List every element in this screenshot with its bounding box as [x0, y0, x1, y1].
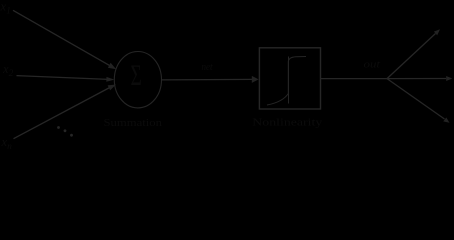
arrowhead into box: [252, 76, 259, 83]
wire input n: [14, 87, 111, 139]
dots between inputs: [57, 126, 73, 137]
arrowhead input 1: [108, 63, 116, 70]
svg-text:out: out: [364, 60, 381, 71]
sigmoid vertical axis: [288, 57, 290, 104]
sigma symbol: [131, 60, 142, 92]
nonlinearity box U1: [259, 48, 320, 109]
wire fan to bottom output: [387, 79, 445, 119]
sigmoid curve inside box: [267, 57, 306, 106]
arrowhead top output: [434, 29, 440, 35]
arrowhead middle output: [446, 76, 452, 81]
svg-text:Nonlinearity: Nonlinearity: [252, 117, 323, 128]
wire input 1: [13, 10, 111, 66]
svg-text:Σ: Σ: [131, 60, 142, 92]
wire fan to top output: [387, 34, 436, 79]
wire input 2: [17, 76, 109, 80]
wire summation to box: [162, 78, 253, 81]
arrowhead input 2: [106, 77, 114, 82]
wire fan to middle output: [387, 78, 446, 80]
svg-text:net: net: [202, 62, 213, 73]
summation node ellipse: [114, 51, 161, 107]
arrowhead bottom output: [443, 118, 449, 123]
wire box to fan point: [321, 78, 387, 80]
svg-text:Summation: Summation: [104, 118, 163, 129]
arrowhead input n: [108, 85, 116, 91]
